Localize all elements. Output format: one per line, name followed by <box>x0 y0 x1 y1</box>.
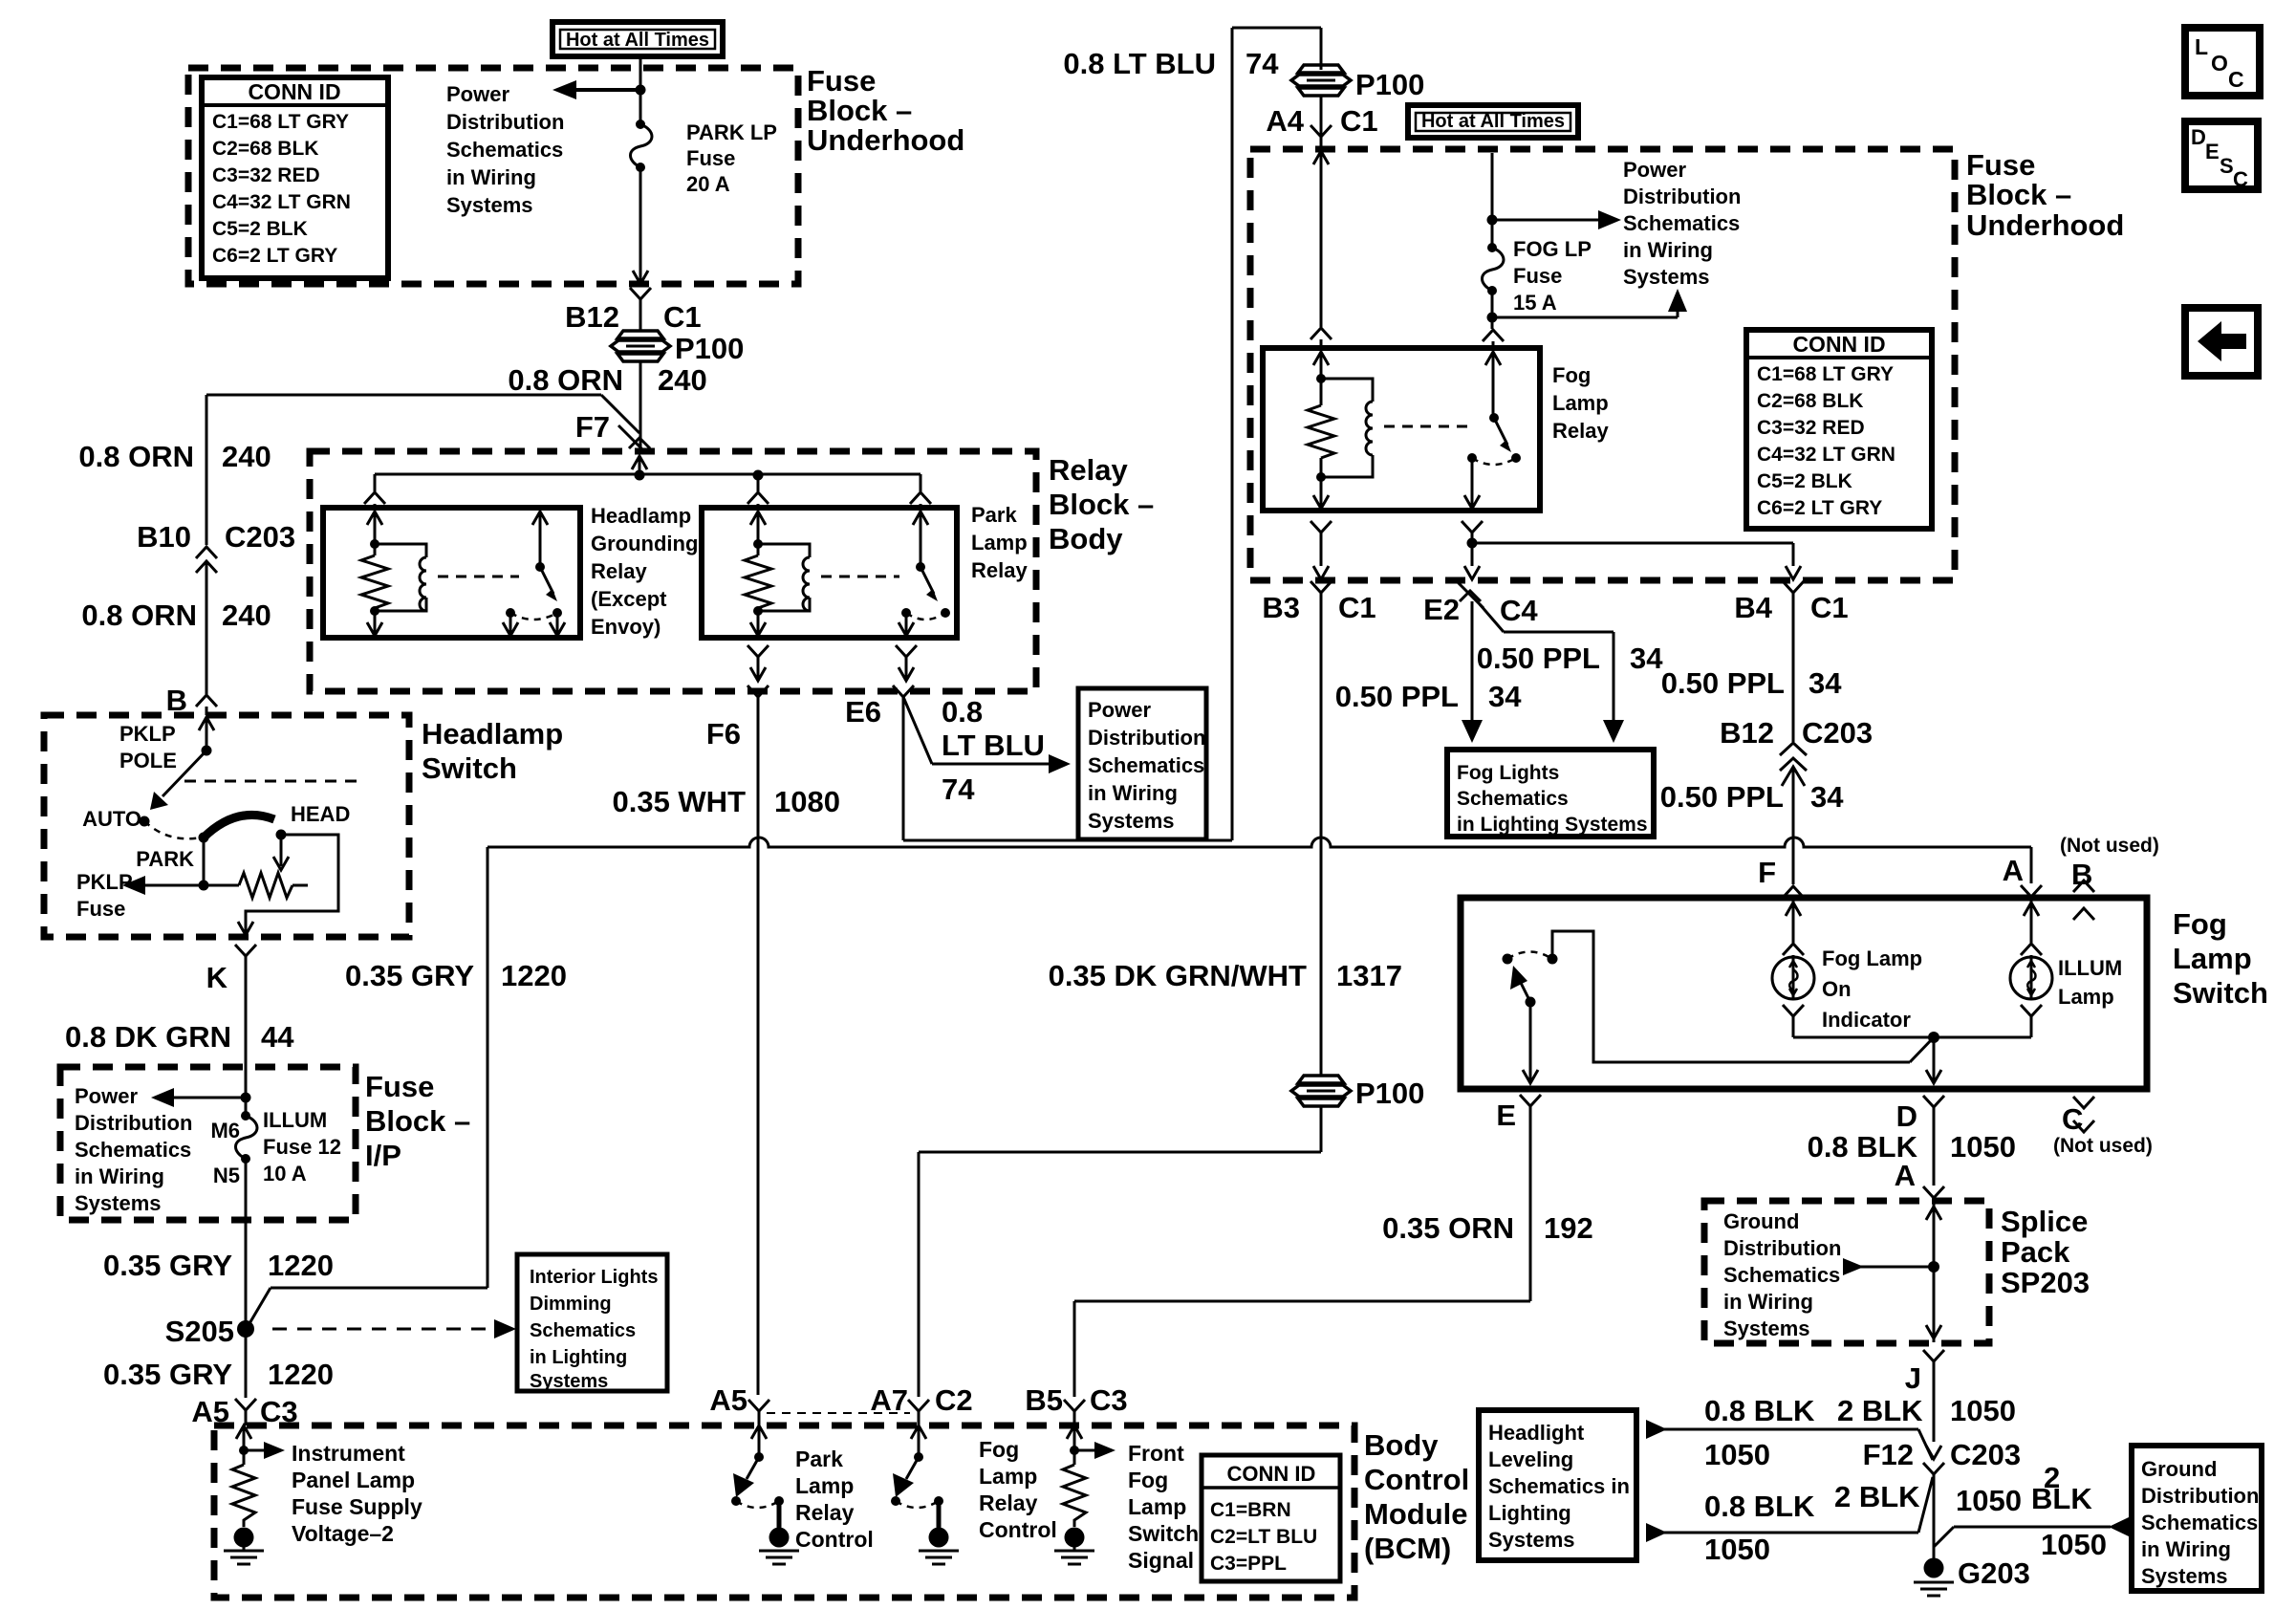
svg-text:Schematics: Schematics <box>446 138 563 162</box>
svg-text:C203: C203 <box>1802 716 1873 750</box>
svg-text:Grounding: Grounding <box>591 532 698 555</box>
wire fuse to box edge <box>633 167 648 284</box>
wire PARK down to junction <box>203 838 206 885</box>
svg-text:D: D <box>2191 125 2206 149</box>
svg-text:Block –: Block – <box>1049 488 1154 521</box>
wire through splice pack <box>1926 1198 1941 1342</box>
svg-text:Park: Park <box>971 503 1017 527</box>
node D junction dot <box>1928 1032 1939 1043</box>
svg-text:F12: F12 <box>1863 1438 1914 1471</box>
svg-text:Dimming: Dimming <box>530 1294 612 1315</box>
connector A4/C1 <box>1266 96 1377 327</box>
svg-text:F7: F7 <box>575 410 610 444</box>
Fuse Block Underhood dashed box 1 <box>188 68 798 284</box>
wire U1 contact stubs <box>503 613 565 636</box>
connector chevron into relay2 right pin <box>910 492 931 508</box>
svg-text:0.35 ORN: 0.35 ORN <box>1382 1211 1514 1245</box>
svg-text:HEAD: HEAD <box>291 802 350 826</box>
svg-text:Module: Module <box>1364 1497 1468 1531</box>
svg-text:Fuse: Fuse <box>686 146 735 170</box>
svg-text:Instrument: Instrument <box>292 1441 405 1466</box>
node S205 splice <box>165 1315 254 1348</box>
connector chevron into fog relay coil <box>1310 328 1332 348</box>
wire E output <box>1523 1002 1538 1083</box>
connector B4/C1 <box>1734 581 1848 742</box>
coil L-u3 <box>1321 379 1373 477</box>
resistor R-u1 <box>361 544 388 616</box>
BCM dashed box <box>214 1425 1354 1598</box>
BCM branch park lamp relay control <box>731 1425 799 1564</box>
switch fog lamp internal <box>1503 931 1935 1062</box>
label 0.50 PPL 34 (below C203) <box>1660 780 1844 814</box>
svg-text:O: O <box>2211 51 2228 76</box>
svg-text:CONN ID: CONN ID <box>1792 332 1885 357</box>
svg-text:PKLP: PKLP <box>76 870 133 894</box>
label ILLUM Fuse 12 10A <box>263 1108 341 1186</box>
svg-text:0.8 ORN: 0.8 ORN <box>81 598 197 632</box>
svg-text:1220: 1220 <box>268 1249 334 1282</box>
wire N5 to S205 <box>245 1159 248 1329</box>
wire 2 BLK to Ground Distribution box <box>1934 1517 2129 1547</box>
svg-text:Headlamp: Headlamp <box>422 717 563 751</box>
svg-text:34: 34 <box>1630 642 1663 675</box>
svg-text:C3: C3 <box>1090 1383 1128 1417</box>
Hot at All Times box 2 <box>1408 105 1578 138</box>
label 0.8 ORN 240 top <box>508 363 706 397</box>
svg-text:B10: B10 <box>137 520 191 554</box>
label 0.35 DK GRN/WHT 1317 <box>1049 959 1402 992</box>
relay U1 title <box>591 504 698 639</box>
Hot at All Times box 1 <box>552 22 723 56</box>
label 0.50 PPL 34 (E2 right) <box>1477 642 1663 675</box>
svg-text:Systems: Systems <box>1088 809 1175 833</box>
svg-text:Fog: Fog <box>1128 1468 1168 1492</box>
wire FOG LP feed <box>1491 153 1494 220</box>
svg-text:Body: Body <box>1049 522 1123 555</box>
label Fog Lamp On Indicator <box>1822 946 1922 1032</box>
wire branch to left (horizontal y413) <box>206 395 639 433</box>
svg-text:0.35 GRY: 0.35 GRY <box>103 1358 232 1391</box>
back arrow box <box>2185 308 2258 376</box>
svg-text:Fog Lights: Fog Lights <box>1457 762 1559 784</box>
svg-text:B4: B4 <box>1734 591 1772 624</box>
ground G203 <box>1914 1556 2030 1596</box>
connector F12/C203 <box>1923 1446 1944 1558</box>
svg-text:F6: F6 <box>706 717 741 751</box>
svg-text:in Wiring: in Wiring <box>1723 1290 1813 1314</box>
svg-text:C1: C1 <box>1338 591 1376 624</box>
svg-text:C: C <box>2228 67 2244 92</box>
arrow to Power Distribution 2 <box>1487 210 1622 229</box>
svg-text:Control: Control <box>1364 1463 1469 1496</box>
wire PARK LP vertical <box>639 56 642 124</box>
svg-text:C: C <box>2062 1102 2083 1136</box>
svg-text:15 A: 15 A <box>1513 291 1557 315</box>
relay U2 Park Lamp Relay box <box>702 508 957 638</box>
connector F chevron <box>1783 886 1804 898</box>
svg-text:C1: C1 <box>663 300 702 334</box>
resistor R-u2 <box>745 544 771 616</box>
Power Distribution text block 2 <box>1623 158 1741 289</box>
wire GRY branch from bus <box>249 847 487 1325</box>
svg-text:Fuse: Fuse <box>1966 148 2035 182</box>
svg-text:E2: E2 <box>1423 593 1460 626</box>
connector chevron into fog relay pivot <box>1483 330 1504 348</box>
svg-text:LT BLU: LT BLU <box>942 729 1045 762</box>
svg-text:Fog: Fog <box>979 1437 1019 1462</box>
svg-text:C4=32 LT GRN: C4=32 LT GRN <box>1757 444 1895 466</box>
svg-text:Fog Lamp: Fog Lamp <box>1822 946 1922 970</box>
svg-text:0.8 BLK: 0.8 BLK <box>1704 1394 1815 1427</box>
svg-text:Control: Control <box>795 1527 874 1552</box>
svg-text:Panel Lamp: Panel Lamp <box>292 1468 415 1492</box>
relay U1 switch <box>506 511 562 620</box>
svg-text:Systems: Systems <box>446 193 533 217</box>
relay U3 title <box>1552 363 1609 443</box>
Power Distribution box at E6 <box>1078 688 1206 839</box>
svg-text:(Except: (Except <box>591 587 667 611</box>
node bus junction F7 <box>635 470 645 481</box>
svg-text:0.8 DK GRN: 0.8 DK GRN <box>65 1020 231 1054</box>
title Fuse Block Underhood 2 <box>1966 148 2124 242</box>
svg-text:1220: 1220 <box>268 1358 334 1391</box>
svg-text:PARK: PARK <box>136 847 194 871</box>
svg-text:74: 74 <box>1245 47 1279 80</box>
svg-text:Fog: Fog <box>2173 907 2227 941</box>
Interior Lights Dimming box <box>517 1254 667 1392</box>
svg-text:240: 240 <box>222 440 271 473</box>
svg-text:B5: B5 <box>1025 1383 1063 1417</box>
svg-text:Schematics: Schematics <box>530 1320 636 1341</box>
connector A7/C2 <box>870 1383 972 1425</box>
svg-text:240: 240 <box>658 363 707 397</box>
svg-text:Fog: Fog <box>1552 363 1591 387</box>
lamp ILLUM Lamp <box>1934 898 2052 1037</box>
title Headlamp Switch <box>422 717 563 785</box>
node AUTO contact <box>140 816 150 827</box>
svg-text:C3=32 RED: C3=32 RED <box>1757 417 1865 439</box>
svg-text:Distribution: Distribution <box>1623 185 1741 208</box>
svg-text:L: L <box>2195 34 2208 59</box>
svg-text:Hot at All Times: Hot at All Times <box>1421 111 1565 132</box>
svg-text:Lamp: Lamp <box>2173 942 2252 975</box>
relay U3 Fog Lamp Relay box <box>1263 348 1540 511</box>
svg-text:Systems: Systems <box>1723 1316 1810 1340</box>
svg-text:Systems: Systems <box>530 1371 608 1392</box>
svg-text:0.35 DK GRN/WHT: 0.35 DK GRN/WHT <box>1049 959 1307 992</box>
svg-text:in Wiring: in Wiring <box>1088 781 1178 805</box>
wire bus y886 with hops <box>487 838 2031 847</box>
label 0.35 GRY 1220 (x257 lower) <box>103 1358 334 1391</box>
Fuse Block Underhood dashed box 2 <box>1250 149 1955 580</box>
fuse FOG LP 15A <box>1483 220 1592 315</box>
svg-text:Fuse: Fuse <box>807 64 876 98</box>
svg-text:Interior Lights: Interior Lights <box>530 1267 658 1288</box>
wire POLE to AUTO arm <box>150 751 206 810</box>
Ground Distribution text block SP203 <box>1723 1209 1841 1340</box>
svg-text:Fuse: Fuse <box>1513 264 1562 288</box>
svg-text:Block –: Block – <box>365 1104 470 1138</box>
label Park Lamp Relay Control <box>795 1447 874 1552</box>
svg-text:P100: P100 <box>1355 68 1424 101</box>
wire dashed arc AUTO to PARK <box>144 821 201 838</box>
svg-text:Distribution: Distribution <box>2141 1484 2259 1508</box>
wire U2 coil bottom stub to F6 <box>747 611 769 681</box>
svg-text:Switch: Switch <box>422 751 517 785</box>
wire headlight leveling lower <box>1646 1477 1933 1542</box>
svg-text:CONN ID: CONN ID <box>248 79 340 104</box>
svg-text:1317: 1317 <box>1336 959 1402 992</box>
svg-text:K: K <box>206 961 228 994</box>
Ground Distribution box right <box>2132 1446 2262 1591</box>
svg-text:0.8 BLK: 0.8 BLK <box>1704 1490 1815 1523</box>
connector F6 below relay block <box>706 685 769 1395</box>
connector K below box <box>206 945 256 1116</box>
svg-text:C5=2 BLK: C5=2 BLK <box>212 218 308 240</box>
title Fuse Block I/P <box>365 1070 470 1172</box>
svg-text:Relay: Relay <box>591 559 647 583</box>
wire 0.8 LT BLU loop <box>903 28 1321 840</box>
Headlight Leveling box <box>1479 1410 1636 1560</box>
wire fuse output + arrow up branch <box>1487 289 1688 329</box>
svg-text:Distribution: Distribution <box>75 1111 192 1135</box>
svg-text:PARK LP: PARK LP <box>686 120 777 144</box>
wire dashed actuator u1 <box>438 576 519 578</box>
svg-text:Relay: Relay <box>795 1500 855 1525</box>
svg-text:S205: S205 <box>165 1315 234 1348</box>
connector P100 symbol 1 <box>611 331 744 365</box>
relay U1 Headlamp Grounding Relay box <box>323 508 580 638</box>
node junction dot <box>241 1093 251 1103</box>
svg-text:in Wiring: in Wiring <box>2141 1537 2231 1561</box>
connector B chevrons unused <box>2073 881 2094 920</box>
label Front Fog Lamp Switch Signal <box>1128 1441 1199 1573</box>
connector E2/C4 <box>1423 581 1538 627</box>
svg-text:0.8 LT BLU: 0.8 LT BLU <box>1063 47 1216 80</box>
connector A5/C3 at BCM <box>191 1395 297 1428</box>
wire branch to B4 <box>1472 543 1801 579</box>
wire E2 left branch <box>1462 601 1483 743</box>
svg-text:D: D <box>1896 1099 1917 1133</box>
svg-text:B12: B12 <box>1720 716 1774 750</box>
Fog Lights Schematics box <box>1447 750 1654 837</box>
title Fuse Block Underhood 1 <box>807 64 964 157</box>
svg-text:0.8 ORN: 0.8 ORN <box>508 363 623 397</box>
label 0.35 WHT 1080 <box>612 785 840 818</box>
wire U1 coil bottom stub <box>367 611 382 636</box>
svg-text:Schematics in: Schematics in <box>1488 1474 1630 1498</box>
node junction dot <box>199 881 209 891</box>
connector A5 chevron + thin dash to A7 <box>748 1400 910 1425</box>
svg-text:1050: 1050 <box>1704 1438 1770 1471</box>
node PARK contact <box>199 833 209 843</box>
svg-text:1050: 1050 <box>1704 1533 1770 1566</box>
label B (Not used) top <box>2060 835 2159 891</box>
connector B3/C1 <box>1262 581 1375 1076</box>
svg-text:0.50 PPL: 0.50 PPL <box>1335 680 1459 713</box>
connector J chevron <box>1905 1350 1944 1442</box>
svg-text:Schematics: Schematics <box>1723 1263 1840 1287</box>
LOC box <box>2185 28 2260 96</box>
svg-text:Pack: Pack <box>2001 1235 2070 1269</box>
svg-text:Headlamp: Headlamp <box>591 504 691 528</box>
label 0.50 PPL 34 (E2 left) <box>1335 680 1522 713</box>
svg-text:Lighting: Lighting <box>1488 1501 1571 1525</box>
svg-text:1050: 1050 <box>2041 1528 2107 1561</box>
svg-text:CONN ID: CONN ID <box>1227 1462 1316 1486</box>
svg-text:240: 240 <box>222 598 271 632</box>
svg-text:Headlight: Headlight <box>1488 1421 1585 1445</box>
svg-text:34: 34 <box>1809 666 1842 700</box>
label 0.8 BLK 2 BLK 1050 (J wire) <box>1704 1394 2016 1427</box>
svg-text:Schematics: Schematics <box>75 1138 191 1162</box>
label 0.35 ORN 192 <box>1382 1211 1593 1245</box>
BCM branch instrument panel <box>224 1425 285 1564</box>
wire E to B5 <box>1074 1095 1541 1397</box>
wire E6 callout diagonal <box>903 697 1071 773</box>
svg-text:C4: C4 <box>1500 594 1538 627</box>
svg-text:Front: Front <box>1128 1441 1184 1466</box>
svg-text:AUTO: AUTO <box>82 807 141 831</box>
connector F7 at relay block edge <box>618 425 650 475</box>
svg-text:44: 44 <box>261 1020 294 1054</box>
inner dashed line <box>184 780 360 783</box>
svg-text:J: J <box>1905 1361 1921 1395</box>
relay U2 coil pin <box>750 511 766 549</box>
svg-text:Power: Power <box>1088 698 1151 722</box>
connector chevron into relay1 left pin <box>364 492 385 508</box>
svg-text:Control: Control <box>979 1517 1057 1542</box>
title Relay Block Body <box>1049 453 1154 555</box>
svg-text:Splice: Splice <box>2001 1205 2088 1238</box>
svg-text:BLK: BLK <box>2031 1482 2092 1515</box>
connector A chevron <box>1923 1186 1944 1198</box>
connector B12/C1 chevron <box>565 288 702 334</box>
relay U3 switch <box>1467 352 1521 465</box>
svg-text:C4=32 LT GRN: C4=32 LT GRN <box>212 191 351 213</box>
Headlamp Switch dashed box <box>44 715 409 937</box>
arrow to Power Distribution I/P <box>151 1088 246 1107</box>
lamp Fog Lamp On Indicator <box>1772 898 1934 1037</box>
wire headlight leveling upper <box>1646 1420 1933 1460</box>
CONN ID table 2 <box>1202 1455 1340 1581</box>
node junction dot <box>636 85 646 96</box>
svg-text:C203: C203 <box>1950 1438 2021 1471</box>
svg-text:192: 192 <box>1544 1211 1593 1245</box>
svg-text:SP203: SP203 <box>2001 1266 2090 1299</box>
relay U2 switch <box>901 508 950 620</box>
fuse PARK LP 20A <box>631 120 777 196</box>
svg-text:Distribution: Distribution <box>1088 726 1205 750</box>
svg-text:E: E <box>1496 1099 1516 1132</box>
svg-text:N5: N5 <box>213 1164 240 1187</box>
connector B12/C203 inline <box>1720 716 1873 884</box>
svg-text:C3=PPL: C3=PPL <box>1210 1553 1287 1575</box>
svg-text:C2=68 BLK: C2=68 BLK <box>212 138 318 160</box>
DESC box <box>2185 121 2258 191</box>
svg-text:1050: 1050 <box>1950 1394 2016 1427</box>
svg-text:20 A: 20 A <box>686 172 730 196</box>
wire dashed arrow to Interior Lights box <box>272 1319 516 1338</box>
svg-text:B12: B12 <box>565 300 619 334</box>
svg-text:Ground: Ground <box>1723 1209 1799 1233</box>
connector B5/C3 <box>1025 1383 1127 1425</box>
svg-text:C203: C203 <box>225 520 295 554</box>
coil L-u1 <box>375 544 426 611</box>
label 0.8 BLK 1050 (D wire) <box>1808 1130 2016 1164</box>
svg-text:2 BLK: 2 BLK <box>1834 1480 1920 1513</box>
svg-text:Fuse: Fuse <box>76 897 125 921</box>
svg-text:C2=68 BLK: C2=68 BLK <box>1757 390 1863 412</box>
svg-text:PKLP: PKLP <box>119 722 176 746</box>
label 0.8 LT BLU 74 top <box>1063 47 1279 80</box>
svg-text:C2: C2 <box>935 1383 973 1417</box>
svg-text:Fuse 12: Fuse 12 <box>263 1135 341 1159</box>
svg-text:Power: Power <box>446 82 509 106</box>
svg-text:Systems: Systems <box>1623 265 1710 289</box>
arrow from Ground Distribution text to wire <box>1843 1258 1939 1275</box>
svg-text:Underhood: Underhood <box>1966 208 2124 242</box>
arrow to Power Distribution 1 <box>552 80 640 99</box>
connector B chevron into headlamp switch <box>196 695 217 751</box>
label 0.8 ORN 240 left upper <box>78 440 271 473</box>
svg-text:Leveling: Leveling <box>1488 1447 1573 1471</box>
svg-text:C1: C1 <box>1340 104 1378 138</box>
svg-text:Lamp: Lamp <box>979 1464 1037 1489</box>
wire U3 coil bottom stub to B3 <box>1310 477 1332 579</box>
switch wiper thick arc <box>204 815 274 838</box>
coil L-u2 <box>758 544 810 611</box>
svg-text:in Lighting: in Lighting <box>530 1347 627 1368</box>
Splice Pack dashed box <box>1704 1201 1989 1343</box>
CONN ID table 1 <box>202 77 388 278</box>
svg-text:E: E <box>2205 140 2220 163</box>
svg-text:0.35 GRY: 0.35 GRY <box>345 959 474 992</box>
svg-text:C1=68 LT GRY: C1=68 LT GRY <box>212 111 349 133</box>
svg-text:C1: C1 <box>1810 591 1849 624</box>
svg-text:Hot at All Times: Hot at All Times <box>566 30 709 51</box>
connector chevron into relay2 left pin <box>747 475 769 508</box>
svg-text:in Lighting Systems: in Lighting Systems <box>1457 814 1648 836</box>
connector D chevron <box>1896 1096 1944 1186</box>
svg-text:C3=32 RED: C3=32 RED <box>212 164 320 186</box>
svg-text:in Wiring: in Wiring <box>75 1164 164 1188</box>
label 0.8 LT BLU 74 at E6 <box>942 695 1045 806</box>
connector E6 below relay block <box>845 685 914 729</box>
title Splice Pack SP203 <box>2001 1205 2090 1299</box>
relay U3 coil pin <box>1313 352 1329 383</box>
svg-text:Power: Power <box>75 1084 138 1108</box>
svg-text:0.50 PPL: 0.50 PPL <box>1660 780 1784 814</box>
svg-text:Distribution: Distribution <box>446 110 564 134</box>
svg-text:Systems: Systems <box>1488 1528 1575 1552</box>
label 0.8 ORN 240 left lower <box>81 598 271 632</box>
svg-text:POLE: POLE <box>119 749 177 772</box>
node bus junction coil feed <box>753 470 764 481</box>
Relay Block dashed box <box>310 451 1036 691</box>
svg-text:P100: P100 <box>675 332 744 365</box>
wiper arrow from HEAD <box>273 835 289 870</box>
connector P100 symbol 3 <box>1291 1076 1424 1110</box>
fuse ILLUM Fuse 12 10A <box>210 1111 257 1187</box>
svg-text:B3: B3 <box>1262 591 1300 624</box>
svg-text:34: 34 <box>1810 780 1844 814</box>
svg-text:F: F <box>1758 856 1776 889</box>
svg-text:E6: E6 <box>845 695 881 729</box>
svg-text:A7: A7 <box>870 1383 908 1417</box>
svg-text:Voltage–2: Voltage–2 <box>292 1521 394 1546</box>
svg-text:1220: 1220 <box>501 959 567 992</box>
